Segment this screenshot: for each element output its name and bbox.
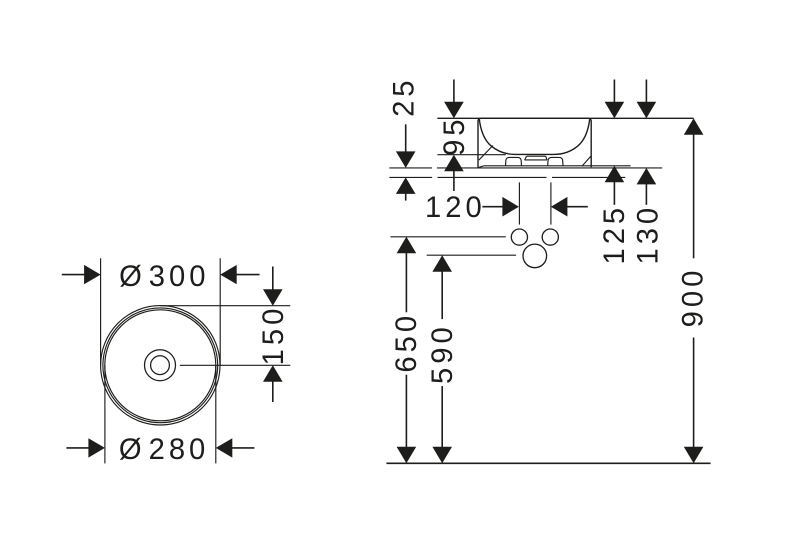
dim 95 down arrow	[444, 102, 464, 119]
dim 900 upper line	[693, 134, 695, 258]
dim 130 tail lower	[645, 184, 647, 205]
dim 150 top arrow	[263, 289, 283, 306]
dim 900 bottom arrow	[684, 447, 704, 464]
dim 125 up arrow	[605, 166, 625, 183]
svg-text:150: 150	[258, 305, 290, 366]
counter bottom line segment a	[389, 176, 432, 178]
drain trapezoid right side	[546, 156, 547, 160]
faucet hole right	[542, 229, 558, 245]
dim 590 bottom arrow	[432, 447, 452, 464]
dim 120 right tail	[567, 206, 588, 208]
dim D280 right tail	[232, 447, 255, 449]
basin underside diagonal right	[582, 156, 591, 166]
590 reference line	[427, 254, 516, 256]
dim 25 down arrow	[396, 151, 416, 168]
dim 150 bottom arrow	[263, 365, 283, 382]
dim D300 right arrow	[220, 265, 237, 284]
outer rim circle	[101, 306, 220, 425]
dim 650 lower line	[405, 375, 407, 448]
dim 590 upper line	[441, 271, 443, 319]
drain trapezoid bottom	[525, 159, 547, 161]
svg-text:125: 125	[599, 204, 631, 265]
basin bottom-left chamfer	[479, 166, 484, 168]
dim 150 bottom tail	[272, 381, 274, 402]
650 reference line	[391, 236, 506, 238]
dim D300 left arrow	[84, 265, 101, 284]
svg-text:120: 120	[425, 192, 486, 224]
dim 95 tail upper	[453, 80, 455, 103]
faucet hole center big	[523, 244, 547, 268]
dim 25 tail upper	[405, 124, 407, 152]
extension line D280 left	[104, 365, 106, 463]
floor line	[386, 462, 710, 464]
dim 590 top arrow	[432, 255, 452, 272]
dim D280 left arrow	[88, 438, 105, 457]
dim 650 top arrow	[397, 237, 417, 254]
dim D280 right arrow	[216, 438, 233, 457]
svg-text:Ø280: Ø280	[119, 434, 209, 466]
dim 650 bottom arrow	[397, 447, 417, 464]
dim 130 down arrow	[637, 102, 657, 119]
drain outer circle	[145, 350, 176, 381]
top tangent reference line	[160, 305, 290, 307]
dim 95 tail lower	[453, 171, 455, 192]
svg-text:Ø300: Ø300	[119, 261, 209, 293]
dim 650 upper line	[405, 253, 407, 313]
dim 25 tail lower	[405, 193, 407, 200]
dim 900 lower line	[693, 338, 695, 448]
counter bottom line segment c	[552, 176, 625, 178]
drain trapezoid top	[527, 155, 546, 157]
dim 130 up arrow	[637, 168, 657, 185]
center reference line	[180, 364, 290, 366]
basin base line (125 reference)	[484, 165, 631, 167]
extension line D300 right	[219, 258, 221, 365]
svg-text:900: 900	[678, 267, 710, 328]
dim D300 left tail	[62, 274, 85, 276]
basin underside diagonal left	[479, 146, 493, 161]
counter bottom line segment b	[438, 176, 547, 178]
dim 150 top tail	[272, 267, 274, 291]
svg-text:650: 650	[391, 312, 423, 373]
dim 125 tail lower	[613, 182, 615, 205]
dim 120 right-pointing arrow	[502, 197, 519, 217]
rim top reference line	[437, 117, 693, 119]
basin foot left	[506, 157, 522, 165]
dim 25 up arrow	[396, 177, 416, 194]
dim D280 left tail	[66, 447, 89, 449]
svg-text:25: 25	[388, 76, 420, 116]
counter top line segment a	[389, 167, 432, 169]
drain inner circle	[151, 356, 170, 375]
basin outer outline	[478, 118, 591, 167]
faucet hole left	[511, 229, 527, 245]
dim 120 line to text	[482, 206, 503, 208]
95 reference line	[437, 154, 505, 156]
dim 130 tail upper	[645, 80, 647, 103]
dim 900 top arrow	[684, 118, 704, 135]
extension line D300 left	[100, 258, 102, 365]
middle rim circle	[103, 308, 218, 423]
dim 590 lower line	[441, 386, 443, 448]
dim 95 up arrow	[444, 155, 464, 172]
dim D300 right tail	[236, 274, 260, 276]
dim 125 down arrow	[605, 102, 625, 119]
svg-text:95: 95	[439, 115, 471, 155]
svg-text:130: 130	[632, 204, 664, 265]
basin inner bowl curve	[479, 119, 589, 154]
basin foot right	[548, 157, 563, 165]
dim 125 tail upper	[613, 80, 615, 103]
svg-text:590: 590	[427, 323, 459, 384]
inner rim circle	[105, 310, 216, 421]
dim 120 left-pointing arrow	[551, 197, 568, 217]
dim 120 right extension line	[550, 182, 552, 224]
dim 120 left extension line	[518, 182, 520, 224]
counter top line segment b	[437, 167, 662, 169]
drain trapezoid left side	[525, 156, 527, 160]
extension line D280 right	[215, 365, 217, 463]
